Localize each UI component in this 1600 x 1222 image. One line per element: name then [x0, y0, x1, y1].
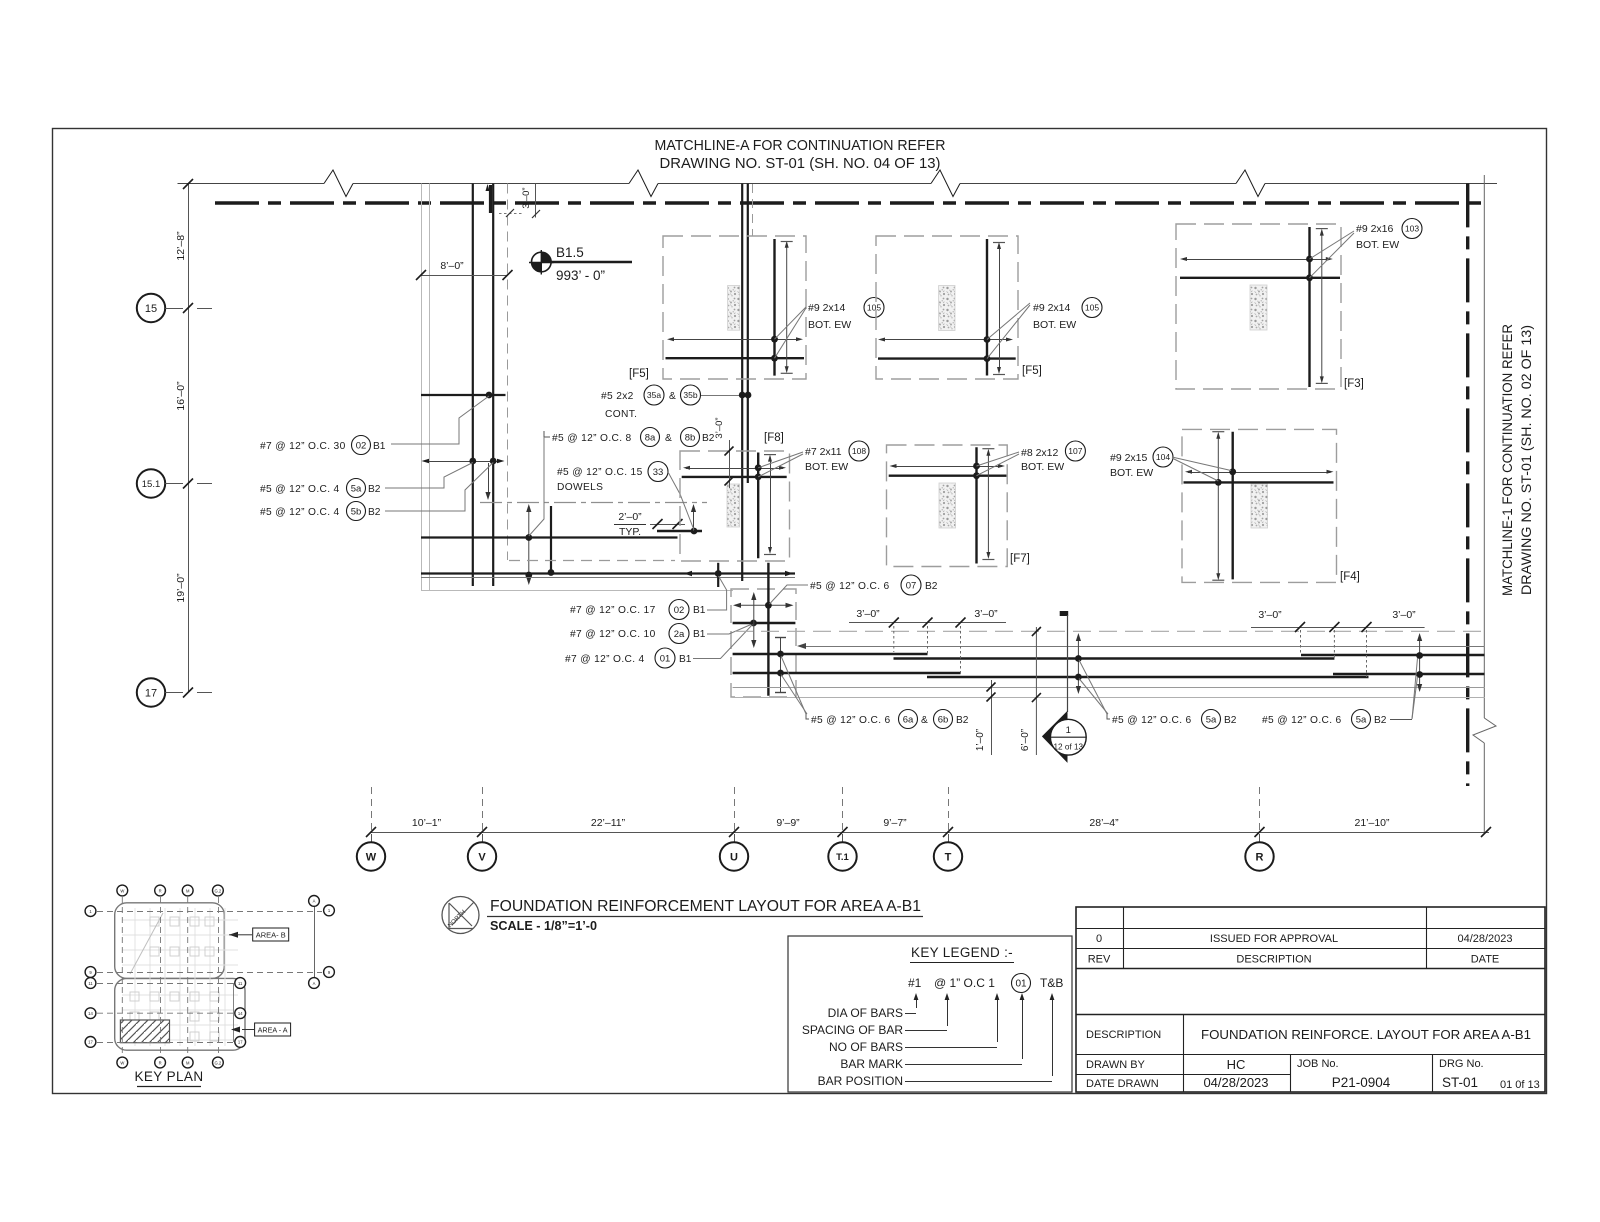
svg-text:#9 2x14: #9 2x14 — [1033, 302, 1071, 314]
svg-text:993’ - 0”: 993’ - 0” — [556, 268, 605, 283]
leader F4 — [1172, 457, 1231, 481]
svg-text:3’–0”: 3’–0” — [856, 608, 880, 620]
footing F3 dashed boundary — [1176, 224, 1341, 389]
svg-text:2a: 2a — [674, 629, 685, 640]
svg-text:ST-01: ST-01 — [1442, 1075, 1478, 1090]
wall outer gray lines (left) — [422, 184, 430, 591]
svg-text:DATE: DATE — [1471, 954, 1500, 966]
svg-text:KEY LEGEND :-: KEY LEGEND :- — [911, 945, 1013, 960]
label #7 12 OC 10 (2a) B1 — [570, 624, 706, 644]
svg-text:#9 2x15: #9 2x15 — [1110, 452, 1148, 464]
svg-text:G.2: G.2 — [215, 1060, 222, 1065]
svg-text:W: W — [120, 1060, 124, 1065]
footing F7 bar junction dots — [973, 463, 980, 480]
svg-text:DIA OF BARS: DIA OF BARS — [828, 1006, 903, 1020]
svg-text:07: 07 — [906, 580, 917, 591]
wall top heavy bar with arrow — [486, 184, 491, 213]
leader for (5a) B2 — [385, 463, 473, 489]
footing F5-left vertical dim — [781, 241, 793, 373]
svg-text:SCALE - 1/8”=1’-0: SCALE - 1/8”=1’-0 — [490, 919, 597, 933]
svg-text:21’–10”: 21’–10” — [1354, 817, 1390, 829]
svg-text:#5 @ 12” O.C. 4: #5 @ 12” O.C. 4 — [260, 507, 340, 518]
svg-text:W: W — [120, 888, 124, 893]
svg-text:#7 @ 12” O.C. 4: #7 @ 12” O.C. 4 — [565, 654, 645, 665]
B1.5 spot elevation symbol — [529, 245, 632, 283]
top continuation line with break symbols — [178, 170, 1498, 197]
footing F4 heavy vertical bar — [1231, 432, 1233, 580]
strip gray line y697 — [733, 697, 1485, 699]
bar segment y531 — [657, 528, 702, 535]
footing F7 heavy vertical bar — [975, 447, 977, 563]
wall bar x551 — [548, 506, 555, 576]
dashed wall line x752.5 — [752, 184, 754, 236]
footing F4 heavy horizontal bar — [1184, 481, 1334, 483]
svg-text:3’–0”: 3’–0” — [1258, 609, 1282, 621]
key legend arrows — [914, 993, 1055, 1076]
bottom dimension line — [366, 827, 1491, 837]
footing F7 vertical dim — [982, 449, 994, 560]
svg-text:1: 1 — [1066, 725, 1071, 736]
svg-text:B1: B1 — [693, 629, 706, 640]
key legend labels — [802, 1006, 1052, 1088]
svg-text:02: 02 — [674, 605, 685, 616]
svg-text:B2: B2 — [925, 581, 938, 592]
svg-text:#9 2x16: #9 2x16 — [1356, 223, 1394, 235]
svg-text:6’–0”: 6’–0” — [1020, 729, 1031, 751]
svg-text:DRAWN BY: DRAWN BY — [1086, 1059, 1146, 1071]
svg-text:HC: HC — [1227, 1057, 1246, 1072]
svg-text:105: 105 — [1085, 303, 1099, 313]
svg-text:#5 @ 12” O.C. 15: #5 @ 12” O.C. 15 — [557, 467, 643, 478]
leader for (5b) B2 — [385, 463, 493, 512]
strip bottom bar mid segment — [927, 676, 1369, 678]
svg-text:#8 2x12: #8 2x12 — [1021, 447, 1059, 459]
dash-dot line y502 — [480, 502, 707, 504]
footing F3 bar junction dots — [1306, 256, 1313, 282]
svg-text:BOT. EW: BOT. EW — [1033, 319, 1076, 331]
leaders 5a first — [1079, 660, 1107, 714]
wall bar y461 with arrows — [422, 458, 505, 465]
label #5 12 OC 15 (33) DOWELS — [557, 462, 668, 494]
svg-text:10’–1”: 10’–1” — [412, 817, 442, 829]
svg-text:&: & — [921, 715, 928, 726]
matchline-A heavy dashed line — [215, 201, 1485, 204]
svg-text:3’–0”: 3’–0” — [714, 417, 725, 438]
grid bubble 15.1 — [137, 469, 183, 497]
svg-text:MATCHLINE-A FOR CONTINUATION: MATCHLINE-A FOR CONTINUATION REFER — [655, 138, 946, 154]
svg-text:#5 @ 12” O.C. 6: #5 @ 12” O.C. 6 — [1112, 715, 1192, 726]
svg-text:B2: B2 — [1374, 715, 1387, 726]
title block frame — [1076, 907, 1545, 1092]
wall bar y537.5 — [421, 536, 678, 538]
matchline-1 note text (rotated) — [1499, 324, 1534, 596]
svg-text:MATCHLINE-1 FOR CONTINUATION: MATCHLINE-1 FOR CONTINUATION REFER — [1499, 324, 1515, 596]
leader F8 — [758, 452, 803, 477]
wall down arrow x488 — [485, 463, 490, 500]
grid bubble U — [720, 842, 748, 870]
svg-text:FOUNDATION REINFORCE. LAYOUT F: FOUNDATION REINFORCE. LAYOUT FOR AREA A-… — [1201, 1027, 1531, 1042]
svg-text:FOUNDATION REINFORCEMENT LAYOU: FOUNDATION REINFORCEMENT LAYOUT FOR AREA… — [490, 898, 921, 915]
svg-text:W: W — [366, 852, 377, 864]
footing F5-left bar junction dots — [771, 336, 778, 362]
leader F3 — [1310, 231, 1355, 278]
footing F8 bar junction dots — [755, 464, 762, 480]
svg-text:DATE DRAWN: DATE DRAWN — [1086, 1078, 1159, 1090]
matchline-A note text — [655, 138, 946, 172]
main title — [487, 898, 923, 917]
svg-text:DESCRIPTION: DESCRIPTION — [1236, 954, 1311, 966]
footing F5-middle column stipple — [939, 286, 955, 331]
key plan dashed grid verticals — [122, 897, 218, 1056]
svg-text:B1: B1 — [679, 654, 692, 665]
leader 35a 35b — [701, 392, 751, 399]
svg-text:ISSUED FOR APPROVAL: ISSUED FOR APPROVAL — [1210, 933, 1338, 945]
svg-text:&: & — [669, 391, 676, 402]
footing F8 callout — [805, 441, 869, 473]
svg-text:12’–8”: 12’–8” — [175, 231, 187, 261]
footing F8 dashed boundary — [680, 451, 790, 561]
label #5 2x2 (35a)(35b) CONT — [601, 385, 701, 420]
svg-text:G.2: G.2 — [215, 888, 222, 893]
svg-text:5b: 5b — [351, 506, 362, 517]
label #7 12 OC 30 (02) B1 — [260, 436, 386, 455]
strip top bar mid segment — [894, 657, 1335, 659]
AREA-B tag — [229, 928, 289, 941]
svg-text:8b: 8b — [685, 432, 696, 443]
arrow dim x693.5 — [691, 504, 696, 531]
grid bubble W — [357, 842, 385, 870]
label #5 12 OC 6 (5a) B2 first — [1107, 710, 1237, 729]
svg-text:11: 11 — [238, 981, 243, 986]
corner footing bar y623 — [733, 620, 796, 627]
svg-text:[F7]: [F7] — [1010, 553, 1030, 565]
svg-text:#5 @ 12” O.C. 4: #5 @ 12” O.C. 4 — [260, 484, 340, 495]
leader 2a B1 — [707, 625, 751, 635]
label #5 12 OC 6 (6a)(6b) B2 — [806, 710, 969, 729]
bar dim arrows x1078 — [1075, 633, 1082, 694]
footing F3 vertical dim — [1316, 229, 1328, 384]
footing F3 heavy vertical bar — [1308, 227, 1310, 387]
svg-text:17: 17 — [88, 1040, 93, 1045]
footing F7 horizontal dim — [890, 464, 1005, 468]
svg-text:&: & — [665, 433, 672, 444]
svg-text:5a: 5a — [1356, 714, 1367, 725]
svg-text:#5 @ 12” O.C. 6: #5 @ 12” O.C. 6 — [810, 581, 890, 592]
svg-text:B2: B2 — [1224, 715, 1237, 726]
svg-text:KEY PLAN: KEY PLAN — [135, 1069, 204, 1084]
svg-text:BOT. EW: BOT. EW — [1356, 239, 1399, 251]
svg-text:B1: B1 — [373, 441, 386, 452]
corner footing dim x753.8 — [751, 592, 756, 648]
svg-text:[F4]: [F4] — [1340, 571, 1360, 583]
footing F5-left column stipple — [728, 286, 740, 331]
footing F5-left heavy horizontal bar — [666, 357, 805, 359]
footing F4 horizontal dim — [1185, 470, 1334, 474]
corner footing dim y605 — [733, 602, 794, 609]
section cut line with square cap — [1060, 611, 1069, 712]
label #5 12 OC 4 (5a) B2 — [260, 479, 381, 498]
footing F5-middle vertical dim — [993, 242, 1005, 375]
svg-text:[F5]: [F5] — [629, 368, 649, 380]
footing F3 horizontal dim — [1180, 257, 1333, 261]
svg-text:DOWELS: DOWELS — [557, 482, 603, 493]
svg-text:R: R — [159, 888, 162, 893]
leader for (02) B1 — [391, 396, 489, 444]
label #5 12 OC 4 (5b) B2 — [260, 502, 381, 521]
svg-text:R: R — [1256, 852, 1264, 864]
footing F8 horizontal dim — [683, 466, 786, 470]
grid bubble R — [1245, 842, 1273, 870]
svg-text:0: 0 — [1096, 933, 1102, 945]
grid bubble 15 — [137, 294, 183, 322]
footing F8 heavy vertical bar — [757, 453, 759, 559]
key plan diagonal — [130, 913, 163, 974]
wall dashed center line — [507, 184, 509, 561]
svg-text:A: A — [313, 981, 316, 986]
leader 01 B1 — [693, 625, 753, 659]
svg-text:12 of 13: 12 of 13 — [1054, 743, 1084, 752]
key legend title — [910, 945, 1014, 963]
svg-text:A: A — [313, 899, 316, 904]
svg-text:SPACING OF BAR: SPACING OF BAR — [802, 1023, 903, 1037]
svg-text:2’–0”: 2’–0” — [618, 511, 642, 523]
svg-text:BOT. EW: BOT. EW — [1110, 467, 1153, 479]
lap dim group left — [849, 608, 1006, 675]
footing F5-middle callout — [1033, 298, 1102, 332]
svg-text:B1: B1 — [693, 605, 706, 616]
grid bubble V — [468, 842, 496, 870]
title block description row — [1086, 1027, 1531, 1042]
svg-text:6a: 6a — [903, 714, 914, 725]
svg-text:AREA- B: AREA- B — [256, 931, 286, 940]
svg-text:#5 @ 12” O.C. 8: #5 @ 12” O.C. 8 — [552, 433, 632, 444]
svg-text:DRAWING NO. ST-01 (SH. NO. 02: DRAWING NO. ST-01 (SH. NO. 02 OF 13) — [1518, 325, 1534, 595]
left dimension line with grid ticks — [183, 179, 212, 698]
svg-text:DESCRIPTION: DESCRIPTION — [1086, 1029, 1161, 1041]
corner footing dashed boundary — [731, 589, 796, 697]
svg-text:17: 17 — [145, 688, 157, 700]
section marker 1 / 12 of 13 — [1042, 711, 1086, 763]
svg-text:9’–9”: 9’–9” — [776, 817, 800, 829]
leader F7 — [977, 452, 1020, 476]
grid bubble T.1 — [828, 842, 856, 870]
footing F5-left callout — [808, 298, 884, 332]
svg-text:#5 @ 12” O.C. 6: #5 @ 12” O.C. 6 — [811, 715, 891, 726]
svg-text:5a: 5a — [1206, 714, 1217, 725]
key legend box — [788, 936, 1072, 1092]
leader F5-left — [775, 307, 807, 358]
svg-text:B2: B2 — [368, 484, 381, 495]
svg-text:B1.5: B1.5 — [556, 245, 584, 260]
svg-text:1’–0”: 1’–0” — [975, 729, 986, 751]
footing F3 heavy horizontal bar — [1180, 277, 1340, 279]
svg-text:BOT. EW: BOT. EW — [1021, 461, 1064, 473]
svg-text:17: 17 — [238, 1040, 243, 1045]
svg-text:T: T — [945, 852, 952, 864]
svg-text:35b: 35b — [683, 390, 697, 400]
svg-text:#7 @ 12” O.C. 10: #7 @ 12” O.C. 10 — [570, 629, 656, 640]
matchline-1 witness thin line with break — [1473, 175, 1496, 832]
north symbol — [442, 897, 479, 934]
footing F8 column stipple — [727, 484, 740, 527]
svg-text:33: 33 — [653, 467, 664, 478]
svg-text:R: R — [159, 1060, 162, 1065]
svg-text:BAR POSITION: BAR POSITION — [818, 1074, 903, 1088]
matchline-1 heavy dashed line (right) — [1466, 183, 1469, 786]
svg-text:6b: 6b — [938, 714, 949, 725]
svg-text:8a: 8a — [645, 432, 656, 443]
key plan inner faint content — [122, 908, 238, 1046]
grid bubble T — [934, 842, 962, 870]
strip top bar right segment — [1301, 654, 1485, 656]
svg-text:REV: REV — [1088, 954, 1111, 966]
svg-text:#5 2x2: #5 2x2 — [601, 391, 634, 402]
svg-text:#7 @ 12” O.C. 17: #7 @ 12” O.C. 17 — [570, 605, 656, 616]
svg-text:JOB No.: JOB No. — [1297, 1058, 1339, 1070]
dim 1-0 vertical — [975, 680, 996, 755]
dim 8-0 — [416, 260, 513, 280]
footing F5-left heavy vertical bar — [773, 239, 775, 376]
svg-text:#1: #1 — [908, 976, 922, 990]
key plan dashed grid horizontals — [97, 912, 322, 1043]
dim 3-0 at F8 — [714, 417, 734, 488]
svg-text:M: M — [186, 1060, 190, 1065]
svg-text:[F5]: [F5] — [1022, 365, 1042, 377]
svg-text:AREA - A: AREA - A — [258, 1026, 288, 1035]
svg-text:14: 14 — [88, 1011, 93, 1016]
svg-text:35a: 35a — [647, 390, 661, 400]
svg-text:[F3]: [F3] — [1344, 378, 1364, 390]
svg-text:16’–0”: 16’–0” — [175, 381, 187, 411]
strip top bar left segment — [733, 653, 928, 655]
corner bar x718 — [715, 563, 722, 587]
key plan hatched area — [120, 1020, 169, 1043]
svg-text:3’–0”: 3’–0” — [521, 187, 532, 208]
leaders 6a 6b — [781, 656, 806, 714]
footing F4 bar junction dots — [1215, 468, 1236, 485]
svg-text:108: 108 — [852, 446, 866, 456]
svg-text:5a: 5a — [351, 483, 362, 494]
svg-text:107: 107 — [1068, 446, 1082, 456]
footing F7 dashed boundary — [887, 445, 1008, 567]
footing F4 vertical dim — [1212, 432, 1224, 581]
svg-text:T.1: T.1 — [836, 852, 849, 863]
footing F4 callout — [1110, 447, 1173, 479]
footing F3 column stipple — [1250, 285, 1267, 330]
footing F5-middle heavy vertical bar — [986, 239, 988, 376]
key plan outline lower (AREA-A) — [115, 978, 245, 1050]
dim 3-0 top — [499, 184, 540, 219]
svg-text:B2: B2 — [702, 433, 715, 444]
label #5 12 OC 6 (07) B2 — [810, 575, 938, 595]
svg-text:3’–0”: 3’–0” — [1392, 609, 1416, 621]
leader for (8a)(8b) — [529, 437, 544, 536]
strip bottom bar right segment — [1333, 673, 1485, 675]
svg-text:15: 15 — [145, 303, 157, 315]
svg-text:103: 103 — [1405, 224, 1419, 234]
svg-text:[F8]: [F8] — [764, 432, 784, 444]
svg-text:#9 2x14: #9 2x14 — [808, 302, 846, 314]
label #7 12 OC 4 (01) B1 — [565, 648, 692, 668]
footing F4 dashed boundary — [1182, 429, 1337, 582]
svg-text:22’–11”: 22’–11” — [591, 817, 626, 829]
svg-text:B2: B2 — [956, 715, 969, 726]
title block revision row — [1096, 933, 1513, 945]
footing F8 vertical dim — [764, 455, 776, 555]
dim 6-0 vertical — [1020, 627, 1041, 755]
leader 07 B2 — [770, 585, 809, 604]
svg-text:01: 01 — [660, 653, 671, 664]
svg-text:11: 11 — [88, 981, 93, 986]
svg-text:#7 @ 12” O.C. 30: #7 @ 12” O.C. 30 — [260, 441, 346, 452]
label #5 12 OC 8 (8a)(8b) B2 — [544, 428, 715, 447]
svg-text:T&B: T&B — [1040, 976, 1063, 990]
title block job no — [1297, 1058, 1391, 1090]
dashed line y560 — [509, 560, 675, 562]
grid bubble 17 — [137, 678, 183, 706]
svg-text:04/28/2023: 04/28/2023 — [1457, 933, 1512, 945]
svg-text:B2: B2 — [368, 507, 381, 518]
wall bar y395 — [421, 392, 506, 399]
svg-text:8’–0”: 8’–0” — [440, 260, 464, 272]
footing F5-middle heavy horizontal bar — [878, 357, 1016, 359]
svg-text:BOT. EW: BOT. EW — [808, 319, 851, 331]
svg-text:#7 2x11: #7 2x11 — [805, 446, 842, 458]
svg-text:28’–4”: 28’–4” — [1089, 817, 1119, 829]
leader 02 B1 corner — [707, 576, 727, 610]
sheet border frame — [53, 129, 1547, 1094]
footing F7 heavy horizontal bar — [889, 475, 1007, 477]
svg-text:104: 104 — [1156, 452, 1170, 462]
svg-text:9’–7”: 9’–7” — [883, 817, 907, 829]
svg-text:M: M — [186, 888, 190, 893]
title block header row — [1088, 954, 1500, 966]
svg-text:#5 @ 12” O.C. 6: #5 @ 12” O.C. 6 — [1262, 715, 1342, 726]
corner footing bar x768 — [767, 563, 769, 696]
wall bottom bars y573.5 — [421, 571, 795, 577]
footing F8 heavy horizontal bar — [682, 476, 787, 478]
svg-text:NO OF BARS: NO OF BARS — [829, 1040, 903, 1054]
bar dim arrows x1419 — [1416, 633, 1423, 692]
bottom grid witness dashes — [372, 787, 1260, 842]
footing F4 column stipple — [1251, 484, 1268, 528]
key plan right connector lines — [234, 906, 315, 1042]
svg-text:CONT.: CONT. — [605, 409, 637, 420]
svg-text:DRG No.: DRG No. — [1439, 1058, 1484, 1070]
KEY PLAN title — [135, 1069, 204, 1087]
footing F5-left dashed boundary — [663, 236, 806, 379]
footing F7 callout — [1021, 441, 1085, 473]
key plan grid bubbles — [85, 885, 334, 1068]
footing F3 callout — [1356, 219, 1422, 252]
footing F5-middle horizontal dim — [878, 338, 1013, 342]
lap dim group right — [1251, 609, 1425, 677]
strip bottom bar left segment — [733, 672, 961, 674]
footing F5-middle bar junction dots — [984, 336, 991, 362]
wall bar line V-left — [472, 184, 474, 587]
leader F5-middle — [987, 303, 1030, 359]
svg-text:19’–0”: 19’–0” — [175, 573, 187, 603]
label #5 12 OC 6 (5a) B2 second — [1262, 710, 1412, 729]
column wall lines x742/748 — [742, 184, 748, 582]
key legend sample — [908, 974, 1063, 993]
wall dim x528.8 — [525, 504, 532, 585]
svg-text:04/28/2023: 04/28/2023 — [1203, 1075, 1268, 1090]
svg-text:14: 14 — [238, 1011, 243, 1016]
key plan outline upper (AREA-B) — [115, 903, 225, 979]
svg-text:3’–0”: 3’–0” — [974, 608, 998, 620]
corner footing dim x780.5 — [775, 637, 786, 693]
